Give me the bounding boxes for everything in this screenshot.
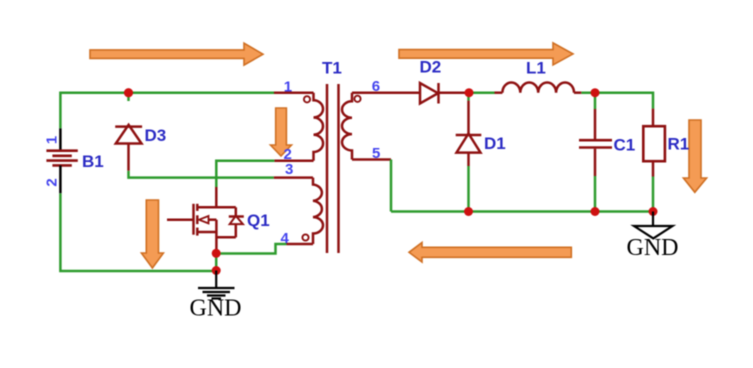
svg-text:Q1: Q1	[247, 211, 270, 230]
pin label 4	[281, 230, 290, 247]
transformer T1 secondary winding pins 6-5	[342, 93, 361, 160]
svg-text:1: 1	[44, 136, 61, 144]
wire T1 pin 4 to Q1 source	[216, 244, 313, 254]
pin label 5	[372, 145, 380, 162]
diode D1	[456, 134, 482, 153]
transistor Q1 MOSFET	[167, 204, 244, 253]
wire D3 top stub	[127, 93, 130, 101]
pin label 6	[372, 78, 380, 95]
inductor L1	[495, 82, 582, 92]
ground right label GND	[627, 235, 679, 261]
pin label 2	[284, 146, 292, 163]
label D3	[145, 126, 167, 145]
svg-text:1: 1	[284, 79, 292, 96]
svg-text:6: 6	[372, 78, 380, 95]
diode D3	[115, 125, 142, 171]
label D2	[420, 58, 442, 77]
battery pin label 1	[44, 136, 61, 144]
svg-text:D1: D1	[484, 134, 506, 153]
battery B1	[46, 128, 77, 193]
ground left earth symbol	[198, 271, 235, 299]
arrow load current down at R1	[683, 120, 706, 192]
svg-text:L1: L1	[526, 59, 546, 78]
label Q1	[247, 211, 270, 230]
label L1	[526, 59, 546, 78]
label D1	[484, 134, 506, 153]
node junction dot C1 bottom	[591, 207, 600, 216]
capacitor C1	[579, 140, 612, 147]
node junction dot top rail at D3	[124, 88, 133, 97]
wire D1 branch	[467, 93, 470, 212]
arrow input current top-left	[90, 43, 263, 65]
svg-text:4: 4	[281, 230, 290, 247]
transformer T1 reset winding pins 3-4	[302, 178, 323, 244]
label C1	[614, 136, 636, 155]
ground left label GND	[190, 296, 242, 322]
resistor R1	[643, 126, 665, 161]
wire T1 pin 2 to Q1 drain	[216, 161, 313, 208]
label R1	[668, 135, 690, 154]
svg-text:GND: GND	[627, 235, 679, 261]
arrow freewheel current left at bottom	[409, 243, 571, 263]
wire Q1 source to ground node stub	[215, 253, 218, 271]
wire node to L1	[471, 91, 495, 94]
svg-text:5: 5	[372, 145, 380, 162]
svg-text:GND: GND	[190, 296, 242, 322]
svg-text:D2: D2	[420, 58, 442, 77]
svg-text:B1: B1	[82, 152, 104, 171]
wire battery bottom to Q1 source ground run	[60, 193, 216, 271]
pin label 1	[284, 79, 292, 96]
wire top rail red segment to T1 pin 1	[274, 91, 314, 94]
wire R1 bottom to ground node	[652, 161, 655, 211]
wire D2 cathode to node	[439, 91, 467, 94]
pin label 3	[285, 161, 293, 178]
svg-text:R1: R1	[668, 135, 690, 154]
diode D2	[420, 83, 439, 104]
wire D3 bottom to T1 pin 3	[129, 171, 314, 178]
wire T1 pin 6 to D2 anode	[352, 91, 420, 94]
transformer T1 core	[327, 84, 339, 253]
arrow secondary current top-right	[399, 43, 573, 65]
wire L1 to R1 top corner	[581, 93, 653, 127]
battery pin label 2	[44, 178, 61, 186]
node junction dot Q1 source	[212, 249, 221, 258]
svg-text:T1: T1	[322, 59, 342, 78]
node junction dot R1 bottom ground	[649, 207, 658, 216]
label T1	[322, 59, 342, 78]
node junction dot D1 bottom	[464, 207, 473, 216]
arrow MOSFET current down at Q1	[141, 200, 163, 268]
svg-text:D3: D3	[145, 126, 167, 145]
svg-text:C1: C1	[614, 136, 636, 155]
node junction dot D2 cathode	[465, 88, 474, 97]
wire top rail green from battery to D3 to T1	[60, 93, 274, 129]
transformer T1 primary winding pins 1-2	[304, 93, 323, 161]
svg-text:3: 3	[285, 161, 293, 178]
svg-text:2: 2	[44, 178, 61, 186]
wire C1 branch	[594, 93, 597, 212]
wire T1 pin 5 down to bottom rail	[352, 160, 391, 212]
node junction dot C1 top	[591, 88, 600, 97]
label B1	[82, 152, 104, 171]
wire bottom rail	[391, 210, 653, 213]
ground right triangle symbol	[634, 212, 673, 239]
node junction dot ground left	[212, 266, 221, 275]
arrow primary winding current down at T1 pin 2	[271, 108, 292, 156]
